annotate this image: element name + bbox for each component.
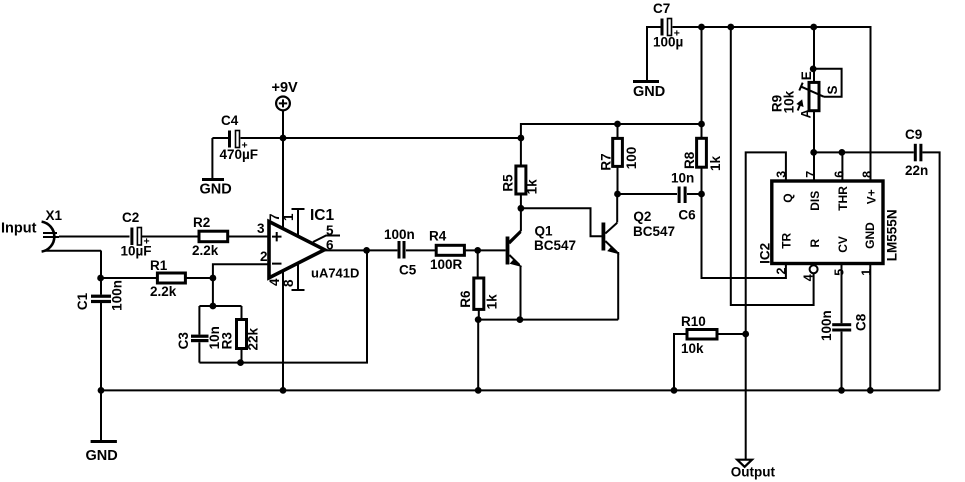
svg-text:10k: 10k [681, 341, 704, 356]
svg-text:2.2k: 2.2k [192, 243, 219, 258]
svg-text:2: 2 [260, 249, 268, 264]
svg-text:THR: THR [836, 186, 850, 211]
svg-text:1k: 1k [524, 179, 539, 195]
svg-text:Q2: Q2 [633, 209, 651, 224]
svg-text:IC1: IC1 [310, 207, 335, 224]
svg-text:C7: C7 [653, 1, 670, 16]
svg-text:10n: 10n [671, 170, 694, 185]
svg-text:1: 1 [281, 213, 296, 221]
svg-text:+: + [674, 27, 680, 39]
svg-text:+: + [242, 140, 248, 152]
svg-text:C6: C6 [678, 207, 696, 222]
svg-text:7: 7 [267, 213, 282, 221]
svg-text:uA741D: uA741D [311, 266, 359, 281]
svg-text:V+: V+ [865, 189, 879, 204]
svg-text:8: 8 [281, 279, 296, 287]
svg-text:R7: R7 [599, 153, 614, 170]
svg-text:1: 1 [859, 269, 873, 276]
svg-text:7: 7 [804, 171, 818, 178]
svg-text:3: 3 [775, 171, 789, 178]
svg-text:10k: 10k [782, 90, 797, 113]
svg-text:R10: R10 [681, 314, 706, 329]
svg-text:C4: C4 [221, 113, 239, 128]
svg-text:8: 8 [861, 171, 875, 178]
svg-text:Q1: Q1 [535, 224, 554, 239]
svg-text:R4: R4 [429, 229, 447, 244]
svg-text:BC547: BC547 [633, 224, 675, 239]
svg-text:3: 3 [257, 221, 265, 236]
svg-text:1k: 1k [708, 155, 723, 171]
svg-text:BC547: BC547 [534, 238, 576, 253]
svg-text:5: 5 [326, 223, 334, 238]
svg-text:4: 4 [801, 274, 815, 281]
svg-text:R3: R3 [219, 332, 234, 350]
svg-text:Input: Input [1, 221, 37, 237]
svg-text:2: 2 [774, 268, 788, 275]
svg-text:5: 5 [832, 269, 846, 276]
svg-text:R5: R5 [501, 174, 516, 192]
svg-text:22k: 22k [246, 327, 261, 350]
svg-text:TR: TR [780, 232, 794, 248]
svg-text:R8: R8 [682, 151, 697, 169]
svg-text:R2: R2 [193, 215, 210, 230]
svg-text:1k: 1k [485, 294, 500, 310]
svg-text:100n: 100n [110, 280, 125, 311]
svg-text:R6: R6 [458, 290, 473, 308]
svg-text:Output: Output [731, 465, 776, 480]
svg-text:100: 100 [624, 147, 639, 170]
svg-text:+: + [144, 236, 150, 248]
svg-text:C2: C2 [122, 210, 139, 225]
svg-text:+9V: +9V [272, 80, 299, 96]
svg-text:100n: 100n [384, 227, 415, 242]
svg-text:100R: 100R [430, 257, 463, 272]
svg-text:S: S [825, 85, 840, 94]
svg-text:6: 6 [832, 171, 846, 178]
svg-text:100n: 100n [819, 310, 834, 341]
svg-text:C9: C9 [905, 127, 922, 142]
svg-text:C8: C8 [854, 313, 869, 331]
svg-text:GND: GND [633, 84, 665, 100]
svg-text:E: E [799, 71, 814, 80]
svg-text:GND: GND [86, 448, 118, 464]
svg-text:C5: C5 [399, 263, 417, 278]
svg-text:C1: C1 [75, 292, 90, 310]
svg-text:C3: C3 [176, 332, 191, 350]
svg-text:2.2k: 2.2k [150, 284, 177, 299]
svg-text:GND: GND [863, 222, 877, 249]
svg-text:A: A [799, 109, 814, 119]
svg-text:22n: 22n [905, 163, 928, 178]
svg-text:R1: R1 [150, 258, 168, 273]
svg-text:X1: X1 [46, 208, 63, 223]
svg-text:CV: CV [836, 236, 850, 253]
svg-text:6: 6 [326, 238, 334, 253]
svg-text:R: R [808, 239, 822, 248]
svg-text:4: 4 [267, 278, 282, 286]
svg-text:IC2: IC2 [758, 243, 773, 264]
svg-text:Q: Q [781, 193, 795, 202]
svg-text:LM555N: LM555N [885, 209, 900, 261]
svg-text:GND: GND [200, 182, 232, 198]
svg-text:470µF: 470µF [220, 147, 259, 162]
svg-text:DIS: DIS [808, 191, 822, 211]
